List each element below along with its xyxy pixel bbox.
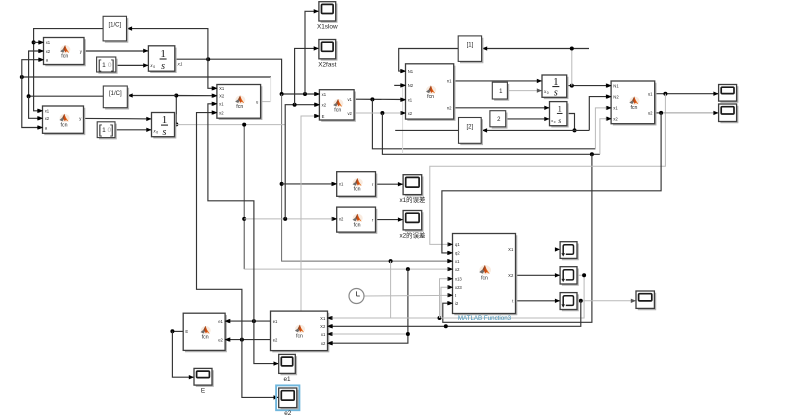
svg-text:fcn: fcn: [630, 105, 637, 111]
to workspace X2: [560, 267, 578, 285]
svg-text:x2: x2: [613, 117, 618, 122]
scope u1: [719, 85, 738, 103]
svg-text:q2: q2: [455, 251, 460, 256]
svg-text:X2fast: X2fast: [318, 61, 336, 68]
svg-text:e2: e2: [284, 410, 292, 417]
svg-text:0: 0: [547, 91, 549, 95]
wire: fcn1 y output to integrator1: [84, 50, 148, 52]
svg-text:X2: X2: [219, 94, 225, 99]
node: x1 bus corner junction: [280, 92, 284, 96]
svg-text:x1: x1: [339, 182, 344, 187]
svg-text:x2: x2: [455, 267, 460, 272]
svg-text:[1/C]: [1/C]: [108, 23, 121, 29]
node: v2 feedback junction: [380, 111, 384, 115]
svg-text:x13: x13: [455, 277, 462, 282]
svg-text:s: s: [163, 127, 167, 138]
node: junction x1 feed: [406, 332, 410, 336]
svg-text:1: 1: [553, 76, 559, 88]
svg-text:[1/C]: [1/C]: [109, 91, 122, 97]
wire: n1 output to integrator3: [454, 80, 542, 82]
svg-text:0: 0: [153, 65, 155, 69]
integrator 1/s lower: [152, 113, 176, 138]
clock block: [349, 289, 364, 304]
wire: e1 up to controller x1 input: [208, 104, 254, 321]
svg-text:N1: N1: [408, 69, 414, 74]
wire: gain [2] output dangling: [395, 129, 458, 131]
svg-text:x1: x1: [45, 109, 50, 114]
integrator4 1/s: [550, 102, 568, 127]
wire: integrator1 x1 down into controller X1 port: [208, 59, 217, 88]
node: E junction: [170, 329, 174, 333]
svg-text:1: 1: [162, 114, 168, 126]
svg-text:fcn: fcn: [202, 335, 209, 341]
constant [1 0] a: [97, 57, 117, 73]
wire: MF3 X2 output to To Workspace 2: [516, 274, 560, 276]
svg-text:x2: x2: [219, 110, 224, 115]
wire: integrator1 output x1 bus: [175, 59, 319, 94]
svg-text:E: E: [185, 329, 188, 334]
node: x2 branch to error fcn: [242, 217, 246, 221]
wire: a bus to fcn1 a port: [22, 60, 43, 77]
MATLAB Function fcn (N dynamics): [401, 64, 454, 120]
scope E: [194, 368, 213, 394]
svg-text:x: x: [550, 118, 553, 123]
wire: gain [1] output to N1 port: [399, 49, 459, 72]
node: x2 bus junction upper: [174, 94, 178, 98]
wire: MF3 t output to To Workspace 3: [516, 300, 560, 302]
node: a bus left junction: [20, 75, 24, 79]
wire: t tap down-left to comparison fcn X2 input: [328, 301, 581, 327]
svg-text:0: 0: [107, 127, 111, 134]
node: junction on v2 feedback: [590, 152, 594, 156]
wire: controller u output stub: [261, 101, 271, 103]
svg-text:E: E: [201, 388, 205, 395]
svg-text:]: ]: [111, 57, 115, 72]
node: x2 bus junction at integrator2 output: [174, 122, 178, 126]
wire: v2 output to N fcn x2 input: [354, 112, 405, 114]
svg-text:x2: x2: [45, 116, 50, 121]
svg-text:x1: x1: [613, 106, 618, 111]
svg-text:X1: X1: [508, 247, 514, 252]
svg-text:s: s: [558, 116, 561, 125]
to workspace t: [560, 293, 578, 311]
svg-text:x1: x1: [322, 92, 327, 97]
scope X2fast: [318, 40, 336, 69]
svg-text:v1: v1: [347, 97, 352, 102]
node: x1 line junction near MATLAB Function3: [389, 259, 393, 263]
svg-text:x1: x1: [321, 332, 326, 337]
constant 2: [490, 111, 507, 128]
wire: x1 error fcn output to scope: [376, 183, 403, 185]
wire: v2 feedback long run to right fcn x2: [382, 113, 600, 154]
svg-text:s: s: [554, 88, 558, 99]
node: x1 tap to scope X1slow: [303, 92, 307, 96]
wire: x1 feed into comparison fcn x1 input: [328, 333, 408, 335]
wire: N2 riser to right fcn: [589, 97, 610, 131]
scope u2: [719, 104, 738, 122]
wire: constant [1 0] a to integrator1 x0: [116, 64, 148, 66]
wire: N2 stub into N fcn: [394, 84, 405, 86]
svg-text:X1: X1: [320, 316, 326, 321]
wire: clock to MF3 t input: [364, 294, 452, 297]
wire: branch into fcn2 x2 port: [29, 96, 43, 118]
svg-text:x1: x1: [177, 62, 183, 68]
wire: a bus to fcn2 a port: [22, 77, 42, 128]
wire: X2 tap down to comparison fcn X1 input: [328, 275, 584, 318]
svg-text:1: 1: [102, 62, 106, 69]
svg-text:[1]: [1]: [467, 43, 474, 49]
to workspace X1: [560, 242, 578, 260]
svg-text:X2: X2: [508, 273, 514, 278]
svg-text:fcn: fcn: [61, 54, 68, 60]
wire: E output from E fcn: [172, 330, 183, 332]
constant [1 0] b: [97, 122, 116, 139]
MATLAB Function3 block: [448, 234, 516, 323]
svg-text:fcn: fcn: [354, 187, 361, 193]
scope x1 error: [399, 175, 425, 204]
MATLAB Function fcn (u1 u2): [607, 81, 656, 125]
svg-text:u2: u2: [648, 111, 653, 116]
wire: u2 feedback down-left to MF3 q2: [442, 113, 661, 253]
svg-text:N1: N1: [613, 83, 619, 88]
wire: e1 down to scope e1: [254, 321, 278, 364]
gain [2] (flipped): [459, 118, 483, 145]
wire: x2 down into comparison fcn x2 input: [328, 269, 408, 343]
wire: v1 feedback long run to right fcn x1: [372, 99, 595, 148]
MATLAB Function controller fcn (u): [213, 85, 262, 120]
wire: fcn2 y output to integrator2: [84, 117, 152, 120]
node: x1 branch to error fcn: [280, 182, 284, 186]
svg-text:x2: x2: [322, 103, 327, 108]
wire: E down to scope E: [172, 331, 193, 377]
wire: x1 into error fcn block: [282, 183, 337, 185]
wire: tap down to i2 line: [443, 154, 592, 322]
node: x2 junction to MF3 x2 feed: [406, 267, 410, 271]
wire: feedback to gain [1/C] upper: [127, 29, 208, 60]
node: e1 junction: [252, 319, 256, 323]
node: X2 tap junction: [582, 273, 586, 277]
integrator3 1/s: [542, 75, 568, 99]
svg-text:fcn: fcn: [296, 334, 303, 340]
node: e2 junction: [240, 338, 244, 342]
wire: e1 from comparison fcn to E fcn: [226, 320, 271, 322]
svg-text:X1: X1: [219, 86, 225, 91]
wire: x2 south run to x2 error fcn and MATLAB Function3: [176, 124, 285, 126]
wire: n2 output to integrator4: [454, 107, 549, 109]
node: t line junction: [579, 299, 583, 303]
scope e1: [279, 354, 297, 383]
wire: u2 output to scope: [655, 112, 661, 114]
svg-text:x2: x2: [321, 341, 326, 346]
wire: constant 1 to integrator3 x0: [507, 90, 541, 92]
wire: x2 into gain [1/C] lower: [128, 95, 177, 97]
svg-text:x1: x1: [46, 40, 51, 45]
wire: constant 2 to integrator4 x0: [506, 118, 549, 120]
constant 1: [492, 82, 508, 100]
wire: e2 down to scope e2: [242, 340, 278, 398]
svg-text:e2: e2: [218, 337, 223, 342]
wire: x2 tap up to scope X2fast: [295, 48, 319, 104]
svg-text:x2: x2: [339, 217, 344, 222]
node: junction on X2 input line: [444, 324, 448, 328]
node: N1 tap to gain [1]: [570, 84, 574, 88]
svg-text:s: s: [161, 61, 165, 72]
node: junction on gain [2] line: [573, 128, 577, 132]
integrator 1/s upper: [148, 46, 175, 72]
wire: x13 feed down from x1 line junction: [390, 261, 392, 318]
svg-text:x2: x2: [408, 111, 413, 116]
MATLAB Function x2 error fcn: [333, 207, 377, 233]
svg-text:fcn: fcn: [481, 276, 488, 282]
svg-text:N2: N2: [408, 83, 414, 88]
svg-text:e2: e2: [273, 337, 278, 342]
scope e2 (selected): [276, 385, 299, 417]
MATLAB Function fcn1 (slow subsystem): [39, 38, 85, 66]
svg-text:fcn: fcn: [427, 94, 434, 100]
scope x2 error: [399, 211, 425, 240]
node: junction on gain [1] line: [570, 47, 574, 51]
node: u1 feedback junction: [663, 92, 667, 96]
wire: x2 into error fcn block: [244, 218, 336, 220]
wire: x1 tap up to scope X1slow: [305, 11, 319, 94]
wire: gain [1/C] upper output to x1 inputs of fcn1 fcn2: [34, 29, 104, 111]
wire: x1 bus down to x1 error fcn and MATLAB Function3: [282, 94, 452, 261]
svg-text:E: E: [322, 114, 325, 119]
svg-text:fcn: fcn: [61, 122, 68, 128]
wire: gain [1] input line: [482, 48, 589, 50]
wire: integrator3 output N1 to right fcn: [567, 85, 611, 87]
wire: faint N2 feed: [402, 85, 404, 154]
wire: integrator4 output to N2 and gain [2]: [567, 114, 575, 131]
MATLAB Function comparison fcn (e1 e2): [271, 311, 332, 351]
node: x2 distribution junction: [27, 94, 31, 98]
svg-text:MATLAB Function3: MATLAB Function3: [458, 315, 512, 322]
node: x2 tap toward plant fcn: [283, 217, 287, 221]
MATLAB Function fcn (v1 v2): [315, 90, 355, 121]
wire: e2 from comparison fcn to E fcn: [226, 339, 271, 341]
gain [1] (flipped): [458, 36, 482, 62]
svg-text:u1: u1: [648, 92, 653, 97]
node: v1 feedback junction: [370, 97, 374, 101]
svg-text:e1: e1: [283, 376, 291, 383]
MATLAB Function x1 error fcn: [333, 172, 377, 198]
svg-text:n2: n2: [447, 106, 452, 111]
node: x1 bus junction at integrator output: [206, 57, 210, 61]
scope X1slow: [317, 2, 338, 31]
svg-text:1: 1: [102, 127, 106, 134]
svg-text:[2]: [2]: [467, 124, 474, 130]
svg-text:X1slow: X1slow: [317, 24, 338, 31]
wire: u1 feedback down-left to MF3 q1: [430, 94, 666, 245]
wire: x13 riser into MF3: [440, 279, 453, 318]
svg-text:x1: x1: [455, 259, 460, 264]
node: branch into fcn1 x1: [32, 40, 36, 44]
MATLAB Function E fcn: [183, 313, 229, 351]
svg-text:x2: x2: [46, 49, 51, 54]
svg-text:fcn: fcn: [334, 108, 341, 114]
wire: x2 error fcn output to scope: [376, 219, 403, 221]
wire: gain [2] input line: [482, 129, 589, 131]
wire: constant [1 0] b to integrator2 x0: [115, 129, 151, 131]
wire: e2 up to controller x2 input: [197, 113, 242, 340]
svg-text:q1: q1: [455, 242, 460, 247]
svg-text:x1: x1: [219, 102, 224, 107]
svg-text:1: 1: [558, 105, 562, 114]
svg-text:0: 0: [156, 131, 158, 135]
gain [1/C] lower (flipped): [103, 86, 128, 109]
svg-text:x1的误差: x1的误差: [399, 195, 425, 204]
gain [1/C] upper (flipped): [103, 16, 127, 42]
svg-text:x1: x1: [408, 98, 413, 103]
svg-text:N2: N2: [613, 94, 619, 99]
node: x2 south corner: [242, 123, 246, 127]
wire: tap up to gain [1] input line: [571, 49, 573, 86]
node: x13 tap junction: [438, 316, 442, 320]
svg-text:fcn: fcn: [354, 222, 361, 228]
wire: E riser into fcn E port: [301, 116, 319, 311]
wire: x2 bus from integrator2 to controller X2 and gain [1/C] lower: [175, 96, 217, 125]
wire: MF3 X1 output to To Workspace 1 (hidden line, port arrow only): [555, 247, 560, 251]
node: x2 tap to scope X2fast: [293, 103, 297, 107]
wire: branch into fcn1 x1 port: [34, 41, 44, 43]
node: u2 feedback junction: [659, 111, 663, 115]
svg-text:v2: v2: [347, 111, 352, 116]
wire: x23 riser into MF3: [441, 287, 452, 318]
wire: faint link from u stub to a bus: [270, 77, 272, 101]
svg-text:x2的误差: x2的误差: [399, 230, 425, 239]
wire: u1 output to scope: [655, 93, 719, 95]
svg-text:X2: X2: [320, 324, 326, 329]
svg-text:1: 1: [160, 48, 166, 60]
svg-text:0: 0: [108, 62, 112, 69]
wire: a bus horizontal: [22, 76, 271, 78]
svg-text:e1: e1: [273, 319, 278, 324]
wire: t line to scope: [577, 300, 636, 302]
wire: gain [1/C] lower output to x2 inputs of fcn1 fcn2: [29, 51, 104, 96]
scope t: [636, 291, 655, 309]
wire: v1 output to N fcn x1 input: [354, 98, 405, 100]
svg-text:fcn: fcn: [236, 104, 243, 110]
wire: x2 up into fcn x2 port: [285, 105, 319, 219]
svg-text:e1: e1: [218, 319, 223, 324]
svg-text:x23: x23: [455, 285, 462, 290]
svg-text:n1: n1: [447, 79, 452, 84]
MATLAB Function fcn2 (fast subsystem): [38, 106, 84, 134]
